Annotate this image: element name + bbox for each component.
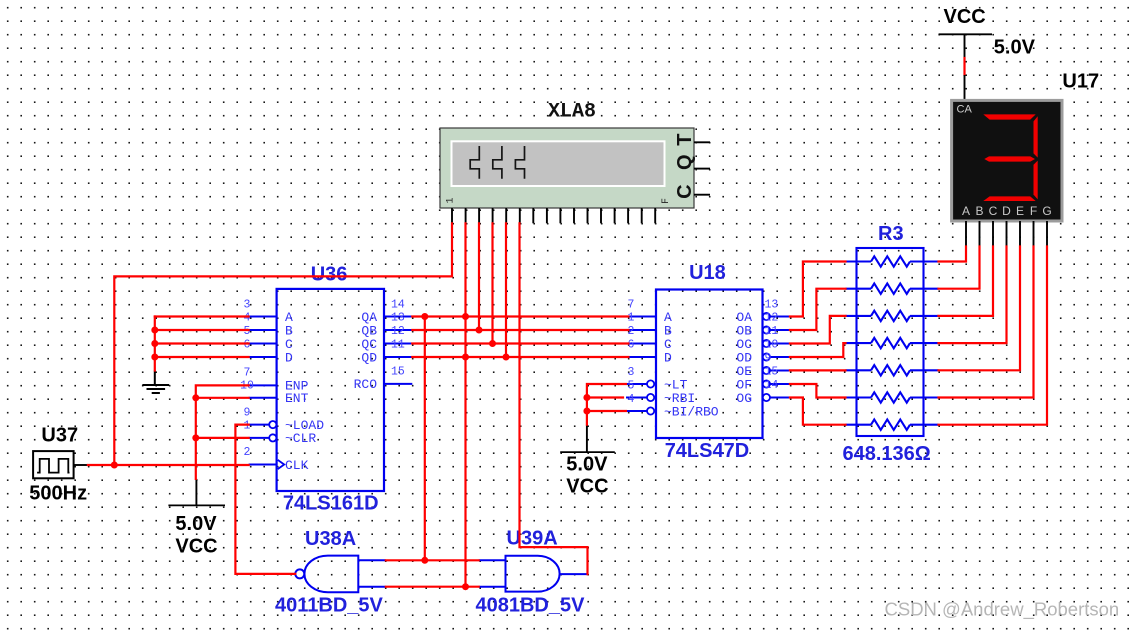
wire bus A QA to U18.A: [412, 315, 628, 317]
svg-text:F: F: [1030, 204, 1037, 218]
svg-text:12: 12: [765, 312, 779, 325]
U36 left pin stubs: [249, 317, 277, 465]
svg-text:5: 5: [628, 379, 635, 392]
svg-text:Q: Q: [674, 154, 696, 170]
wire U18 OB to R3 row2: [790, 289, 846, 330]
svg-text:RCO: RCO: [354, 377, 378, 392]
U18 pin names: [664, 310, 752, 420]
junctions on U36 VCC net: [192, 394, 199, 401]
junctions on ground net: [151, 327, 158, 334]
svg-text:CLK: CLK: [285, 458, 309, 473]
wire U18 OD to R3 row4: [790, 343, 846, 357]
svg-text:T: T: [674, 133, 696, 145]
svg-text:4: 4: [628, 393, 635, 406]
svg-text:XLA8: XLA8: [548, 101, 596, 124]
svg-text:9: 9: [765, 352, 772, 365]
svg-text:R3: R3: [878, 223, 904, 245]
svg-text:5: 5: [244, 325, 251, 338]
svg-text:~BI/RBO: ~BI/RBO: [664, 404, 719, 419]
svg-text:D: D: [1002, 204, 1011, 218]
XLA8 side letters T Q C: [674, 133, 696, 198]
U36 pin numbers: [240, 299, 405, 459]
wire gate bottom net: [386, 586, 479, 588]
U36 right pin stubs: [384, 317, 412, 384]
power VCC for U17: [939, 6, 1036, 58]
svg-text:3: 3: [628, 366, 635, 379]
svg-text:13: 13: [391, 312, 405, 325]
wire U36 inputs to ground: [155, 317, 249, 371]
svg-text:A: A: [962, 204, 970, 218]
svg-text:U17: U17: [1062, 71, 1099, 93]
svg-text:G: G: [1042, 204, 1051, 218]
wire bus C QC to U18.C: [412, 342, 628, 344]
wire VCC net to U18 ~LT ~RBI ~BI/RBO: [587, 384, 626, 425]
svg-text:VCC: VCC: [944, 6, 986, 28]
svg-text:1: 1: [628, 312, 635, 325]
svg-text:4081BD_5V: 4081BD_5V: [476, 594, 586, 616]
svg-text:E: E: [1016, 204, 1024, 218]
svg-text:U36: U36: [311, 263, 348, 285]
wire XLA8 ch5 drop: [505, 223, 507, 357]
wire VCC to U17 CA pin: [963, 58, 965, 75]
svg-text:74LS161D: 74LS161D: [283, 492, 379, 514]
svg-text:500Hz: 500Hz: [29, 482, 87, 504]
wire U18 OE to R3 row5: [790, 369, 846, 371]
resistor network R3: [846, 248, 939, 436]
svg-text:VCC: VCC: [566, 475, 608, 497]
wire bus D QD to U18.D: [412, 356, 628, 358]
svg-text:ENT: ENT: [285, 391, 309, 406]
junction dots on buses: [421, 313, 428, 320]
U18 input pin stubs: [626, 317, 656, 412]
svg-text:74LS47D: 74LS47D: [665, 440, 750, 462]
svg-text:B: B: [975, 204, 983, 218]
wire U18 OC to R3 row3: [790, 316, 846, 344]
svg-text:C: C: [989, 204, 998, 218]
AND gate U39A: [479, 556, 588, 592]
svg-text:11: 11: [765, 325, 779, 338]
junctions on U18 VCC net: [583, 394, 590, 401]
wire VCC net to ENP ENT ~CLR: [196, 385, 249, 479]
svg-text:15: 15: [391, 366, 405, 379]
U18 input bubbles: [647, 380, 654, 414]
U17 CA pin: [964, 75, 966, 100]
svg-text:14: 14: [765, 379, 779, 392]
segment b: [1034, 116, 1038, 157]
svg-text:1: 1: [446, 197, 457, 203]
clock source U37: [33, 451, 88, 478]
svg-text:D: D: [285, 350, 293, 365]
wire gate top net with branch to bus A: [386, 317, 479, 561]
U18 pin numbers: [628, 299, 779, 407]
wire U38A output to U36 ~LOAD: [235, 425, 295, 574]
U36 input bubbles: [269, 421, 276, 442]
junction at U37 output: [111, 462, 118, 469]
svg-text:QD: QD: [361, 350, 377, 365]
logic analyzer XLA8 body: [440, 128, 694, 208]
svg-text:D: D: [664, 350, 672, 365]
svg-text:9: 9: [244, 406, 251, 419]
svg-text:~CLR: ~CLR: [285, 431, 316, 446]
svg-text:15: 15: [765, 366, 779, 379]
svg-text:1: 1: [244, 419, 251, 432]
wire XLA8 ch3 drop: [478, 223, 480, 330]
wire XLA8 ch4 drop: [491, 223, 493, 343]
U17 pins: [966, 221, 1047, 247]
svg-text:5.0V: 5.0V: [175, 513, 217, 535]
svg-text:U18: U18: [689, 262, 726, 284]
segment d: [983, 196, 1035, 201]
svg-text:7: 7: [244, 367, 251, 380]
U17 segment letters A-G: [962, 204, 1052, 218]
U36 clock triangle: [278, 460, 285, 469]
svg-text:5.0V: 5.0V: [566, 454, 608, 476]
wire clock net U37 to CLK and XLA8 pin1: [88, 223, 452, 465]
segment g: [984, 156, 1035, 161]
svg-text:14: 14: [391, 299, 405, 312]
svg-text:U37: U37: [41, 424, 78, 446]
svg-text:6: 6: [244, 339, 251, 352]
7-segment display U17: [952, 100, 1062, 221]
svg-text:F: F: [661, 198, 672, 204]
ground: [142, 371, 169, 394]
svg-text:6: 6: [628, 339, 635, 352]
power VCC 5.0V for U18: [560, 425, 615, 498]
svg-text:4011BD_5V: 4011BD_5V: [275, 594, 384, 616]
wire U18 OA to R3 row1: [790, 262, 846, 317]
segment a: [983, 114, 1035, 119]
wire XLA8 ch2 vertical: [464, 223, 466, 586]
wire U18 OF to R3 row6: [790, 384, 846, 398]
svg-text:3: 3: [244, 299, 251, 312]
svg-text:CA: CA: [957, 104, 973, 116]
XLA8 bottom pins: [452, 208, 655, 223]
wire U18 OG to R3 row7: [790, 398, 846, 425]
svg-text:11: 11: [391, 339, 405, 352]
svg-text:10: 10: [765, 339, 779, 352]
svg-text:C: C: [674, 184, 696, 198]
svg-text:13: 13: [765, 299, 779, 312]
svg-text:OG: OG: [736, 391, 752, 406]
U36 pin names: [285, 310, 377, 473]
svg-text:2: 2: [244, 446, 251, 459]
segment c: [1034, 161, 1038, 200]
IC U36 74LS161D box: [277, 289, 384, 491]
wire XLA8 ch6 to U39A output: [520, 223, 588, 574]
svg-text:648.136Ω: 648.136Ω: [843, 443, 931, 465]
XLA8 waveform traces: [470, 146, 524, 179]
power VCC 5.0V for U36: [168, 479, 225, 558]
XLA8 right pins: [694, 142, 710, 194]
NAND gate U38A: [295, 556, 386, 593]
wires R3 rows to display pins: [939, 247, 1048, 425]
svg-text:4: 4: [244, 312, 251, 325]
svg-text:12: 12: [391, 325, 405, 338]
svg-text:7: 7: [628, 299, 635, 312]
XLA8 pin 1 and F markers: [446, 197, 673, 204]
svg-text:VCC: VCC: [175, 536, 217, 558]
IC U18 74LS47D box: [656, 290, 763, 439]
wire bus B QB to U18.B: [412, 329, 628, 331]
U18 output bubbles and stubs: [770, 317, 790, 398]
svg-text:CSDN @Andrew_Robertson: CSDN @Andrew_Robertson: [885, 599, 1120, 621]
svg-text:U38A: U38A: [305, 528, 356, 550]
svg-text:5.0V: 5.0V: [994, 36, 1036, 58]
svg-text:2: 2: [628, 325, 635, 338]
